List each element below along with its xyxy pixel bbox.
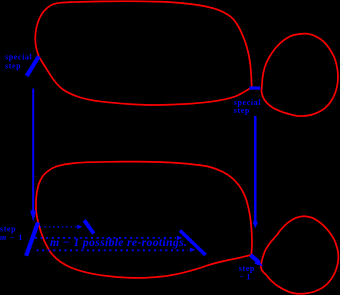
svg-text:step: step (234, 106, 250, 115)
special step arrow (bottom-right, thick diagonal with arrowhead) (251, 255, 260, 263)
special step thick segment (top-left, on big blob cusp) (27, 56, 39, 76)
svg-text:step: step (5, 62, 21, 71)
left arrowhead (30, 211, 36, 222)
step m-1 thick segment (bottom-left, on bottom blob cusp) (26, 222, 38, 256)
bottom big blob (red, cusps at left-bottom and right-bottom) (36, 162, 252, 278)
arrowhead on bottom-right special step (255, 258, 264, 266)
arrowhead A (77, 225, 82, 229)
svg-text:m − 1: m − 1 (0, 233, 23, 242)
svg-text:m − 1 possible re-rootings.: m − 1 possible re-rootings. (50, 235, 187, 249)
top small blob (red) (261, 34, 338, 116)
dotted re-rooting line B (35, 237, 176, 239)
step segment D2 (long) (180, 231, 206, 256)
right long vertical arrow (254, 116, 256, 222)
dotted re-rooting line A (40, 226, 77, 228)
step segment D1 (84, 220, 94, 233)
arrowhead B (177, 236, 182, 240)
right arrowhead (253, 222, 259, 229)
dotted re-rooting line C (37, 249, 189, 251)
svg-text:special: special (5, 53, 32, 62)
top big blob (red map outline, cusps at left-bottom and right) (35, 1, 251, 105)
svg-text:− 1: − 1 (239, 273, 250, 282)
arrowhead C (190, 248, 196, 252)
bottom small blob (red) (261, 216, 339, 294)
left long vertical arrow (wire from top special step down to bottom figure) (32, 89, 34, 213)
special step bar (top middle, between the two blobs) (249, 86, 260, 89)
